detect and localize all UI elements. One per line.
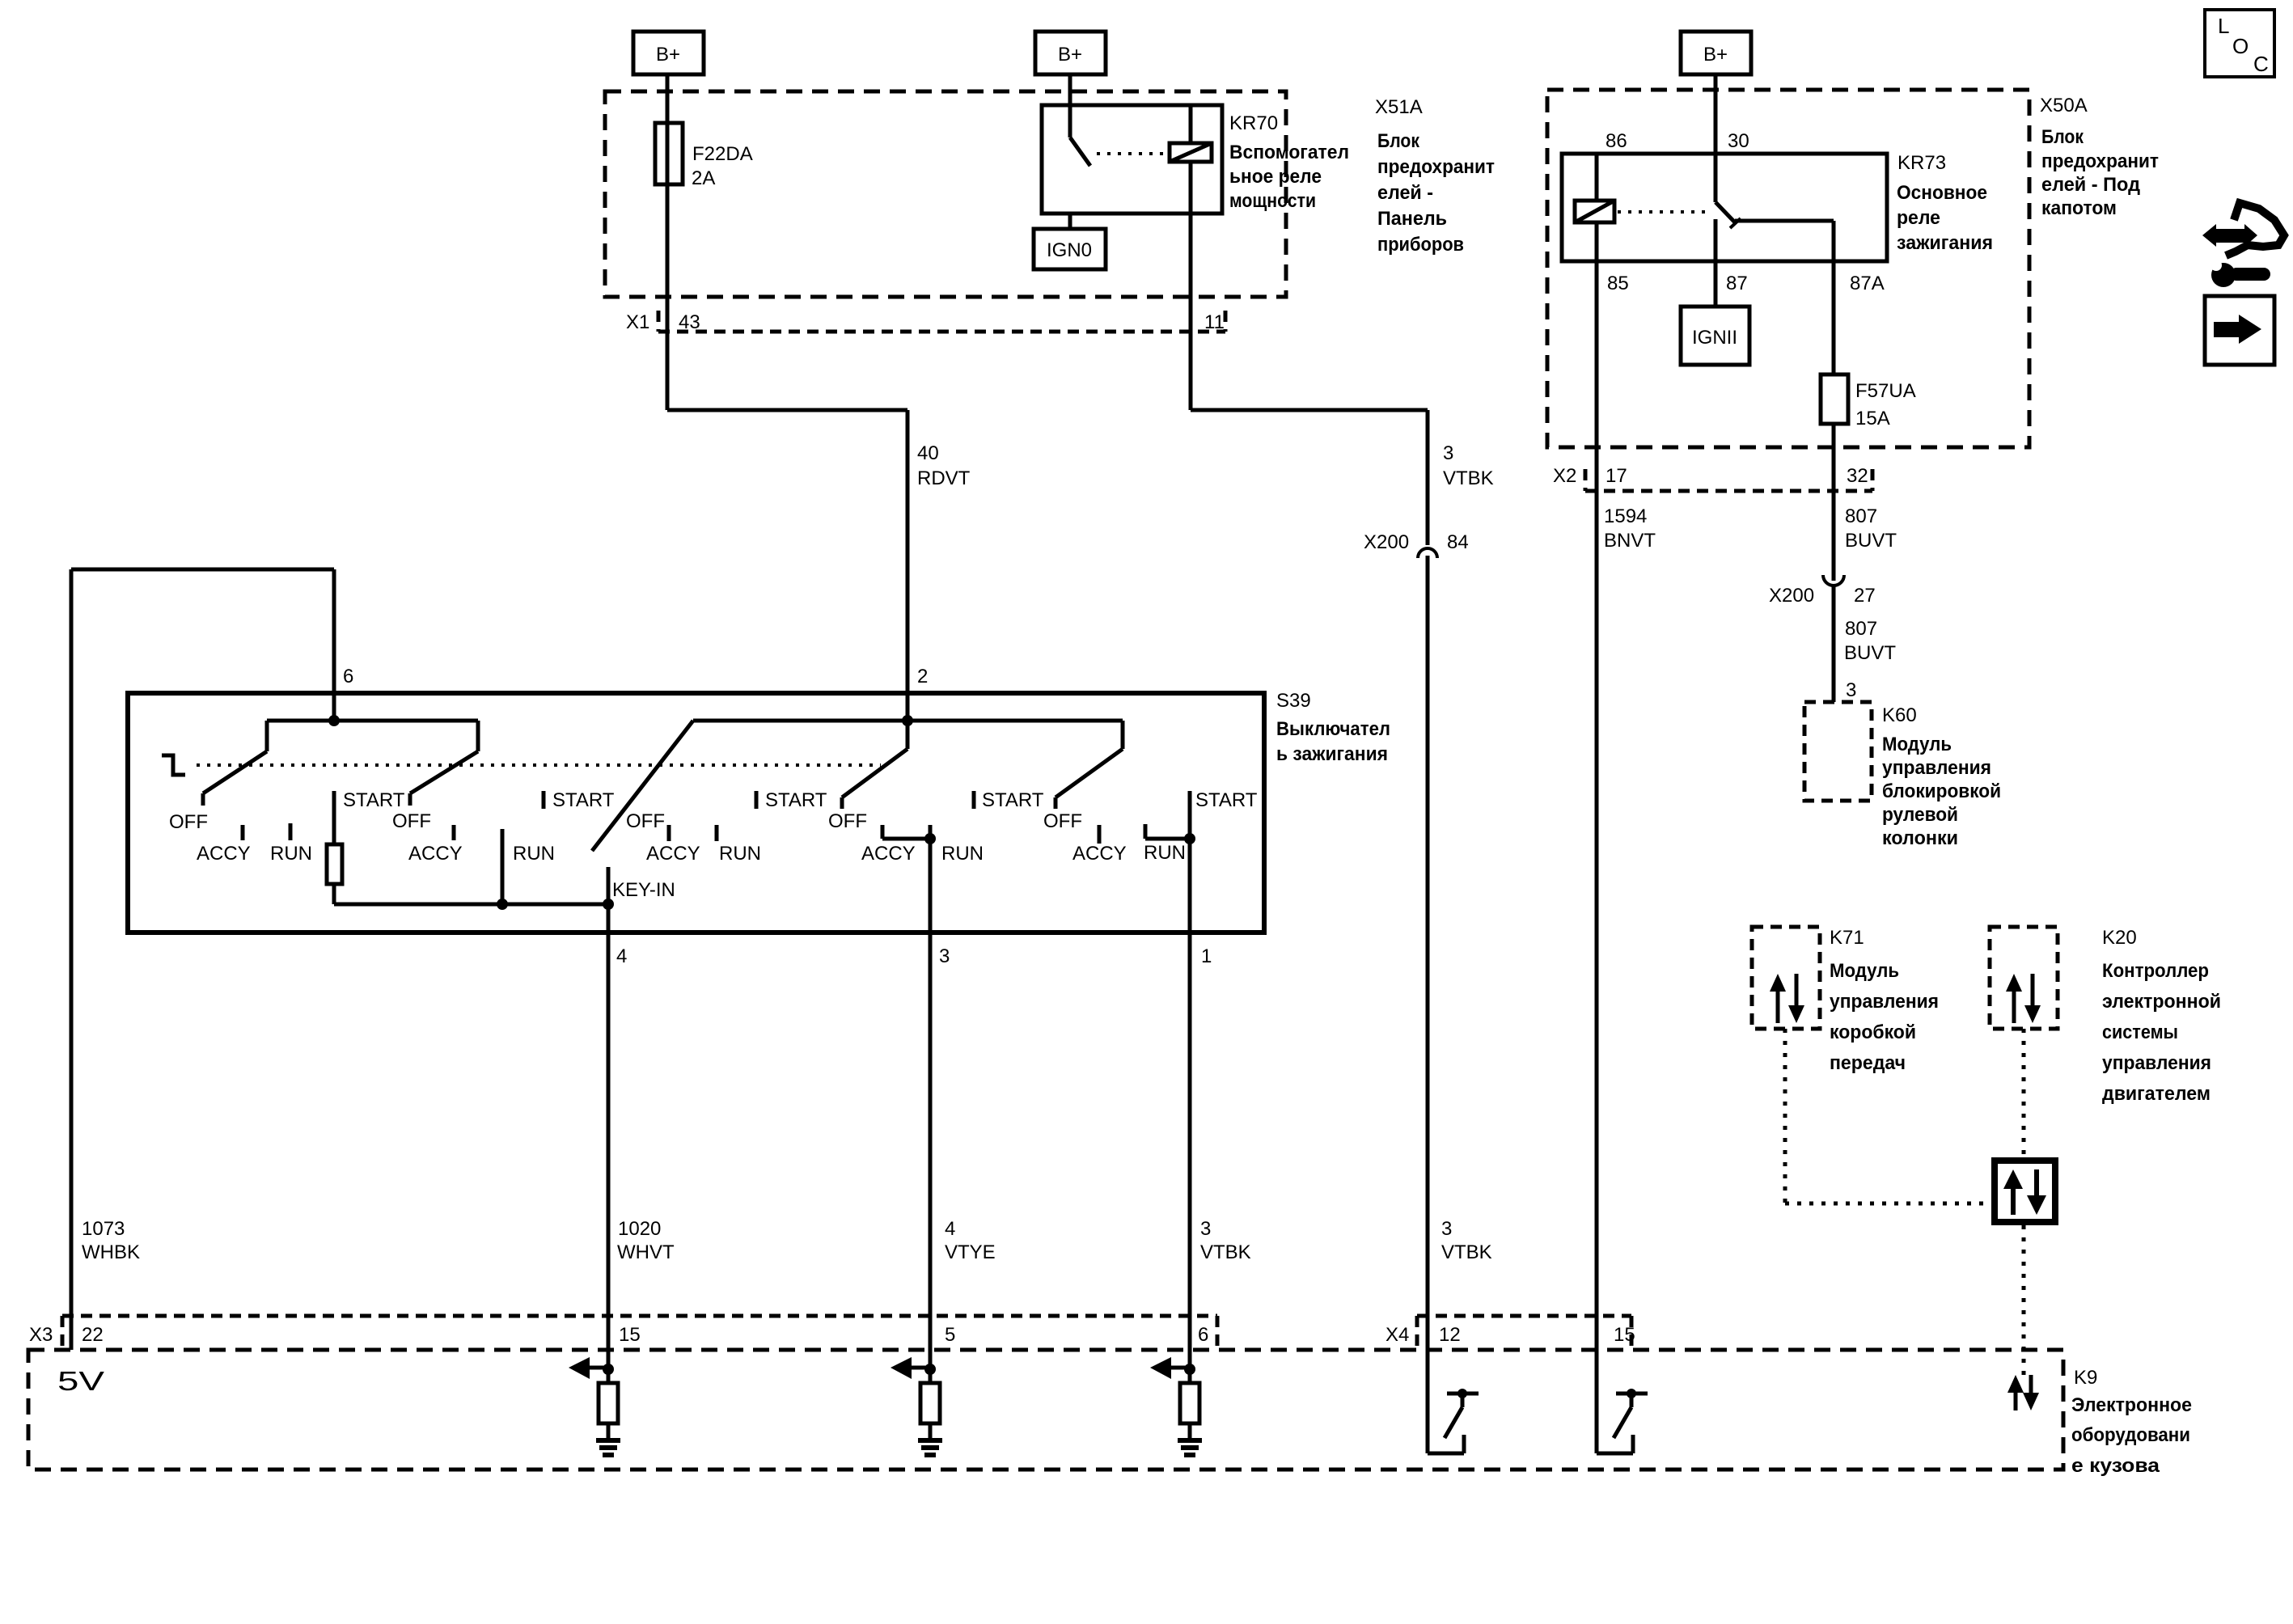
svg-text:Модуль: Модуль (1882, 734, 1952, 755)
svg-text:RDVT: RDVT (917, 467, 971, 489)
svg-text:B+: B+ (1703, 44, 1728, 66)
svg-text:зажигания: зажигания (1897, 232, 1993, 254)
svg-text:Модуль: Модуль (1830, 960, 1899, 982)
svg-text:рулевой: рулевой (1882, 804, 1958, 826)
svg-text:F22DA: F22DA (692, 143, 753, 165)
svg-text:управления: управления (1830, 991, 1939, 1013)
svg-text:ACCY: ACCY (1072, 843, 1127, 865)
svg-text:3: 3 (1443, 442, 1453, 464)
svg-text:VTBK: VTBK (1200, 1241, 1251, 1263)
svg-text:предохранит: предохранит (1377, 156, 1495, 178)
svg-text:управления: управления (2102, 1052, 2211, 1074)
svg-text:Вспомогател: Вспомогател (1229, 142, 1349, 163)
svg-text:ACCY: ACCY (861, 843, 916, 865)
svg-text:BUVT: BUVT (1844, 642, 1896, 664)
svg-text:X2: X2 (1553, 465, 1576, 487)
svg-text:ь зажигания: ь зажигания (1276, 743, 1388, 765)
svg-text:Блок: Блок (2041, 126, 2084, 148)
svg-text:OFF: OFF (169, 811, 208, 833)
svg-text:5V: 5V (57, 1366, 104, 1396)
svg-text:электронной: электронной (2102, 991, 2221, 1013)
svg-text:87: 87 (1726, 273, 1748, 294)
svg-text:84: 84 (1447, 531, 1469, 553)
svg-text:коробкой: коробкой (1830, 1021, 1916, 1043)
svg-text:мощности: мощности (1229, 190, 1316, 212)
svg-text:KR70: KR70 (1229, 112, 1278, 134)
svg-text:15: 15 (1614, 1324, 1635, 1346)
svg-text:VTBK: VTBK (1443, 467, 1494, 489)
svg-text:реле: реле (1897, 207, 1940, 229)
svg-text:системы: системы (2102, 1021, 2178, 1043)
svg-text:27: 27 (1854, 585, 1876, 607)
svg-text:RUN: RUN (270, 843, 312, 865)
svg-text:Блок: Блок (1377, 130, 1420, 152)
svg-text:е кузова: е кузова (2071, 1455, 2160, 1477)
svg-text:32: 32 (1847, 465, 1868, 487)
svg-text:3: 3 (1846, 679, 1856, 701)
svg-text:86: 86 (1606, 130, 1627, 152)
svg-text:87A: 87A (1850, 273, 1885, 294)
svg-text:X1: X1 (626, 311, 649, 333)
svg-text:Выключател: Выключател (1276, 718, 1390, 740)
svg-text:X200: X200 (1769, 585, 1814, 607)
svg-text:S39: S39 (1276, 690, 1311, 712)
svg-text:приборов: приборов (1377, 234, 1464, 256)
svg-text:4: 4 (616, 945, 627, 967)
svg-text:OFF: OFF (392, 810, 431, 832)
svg-text:Контроллер: Контроллер (2102, 960, 2209, 982)
svg-text:ACCY: ACCY (408, 843, 463, 865)
svg-text:ACCY: ACCY (197, 843, 251, 865)
svg-text:807: 807 (1845, 505, 1877, 527)
svg-text:X3: X3 (29, 1324, 53, 1346)
svg-text:11: 11 (1204, 311, 1225, 333)
svg-text:807: 807 (1845, 618, 1877, 640)
svg-text:предохранит: предохранит (2041, 150, 2159, 172)
svg-text:85: 85 (1607, 273, 1629, 294)
svg-text:капотом: капотом (2041, 197, 2117, 219)
svg-text:5: 5 (945, 1324, 955, 1346)
svg-text:BUVT: BUVT (1845, 530, 1897, 552)
svg-text:WHVT: WHVT (617, 1241, 675, 1263)
svg-text:START: START (552, 789, 615, 811)
svg-text:K60: K60 (1882, 704, 1917, 726)
svg-text:KEY-IN: KEY-IN (612, 879, 675, 901)
svg-text:15: 15 (619, 1324, 641, 1346)
svg-text:ACCY: ACCY (646, 843, 700, 865)
svg-text:ьное реле: ьное реле (1229, 166, 1322, 188)
svg-text:X4: X4 (1386, 1324, 1409, 1346)
svg-text:F57UA: F57UA (1855, 380, 1916, 402)
svg-text:L: L (2218, 14, 2229, 38)
svg-text:RUN: RUN (1144, 842, 1186, 864)
svg-text:K71: K71 (1830, 927, 1864, 949)
svg-text:елей -: елей - (1377, 182, 1433, 204)
svg-text:двигателем: двигателем (2102, 1083, 2211, 1105)
svg-text:BNVT: BNVT (1604, 530, 1656, 552)
svg-text:B+: B+ (656, 44, 680, 66)
svg-text:VTYE: VTYE (945, 1241, 996, 1263)
svg-text:C: C (2253, 52, 2269, 76)
svg-text:K20: K20 (2102, 927, 2137, 949)
svg-text:1073: 1073 (82, 1218, 125, 1240)
svg-text:START: START (343, 789, 405, 811)
svg-text:2A: 2A (692, 167, 715, 189)
svg-text:3: 3 (1200, 1218, 1211, 1240)
svg-text:RUN: RUN (513, 843, 555, 865)
svg-text:6: 6 (1198, 1324, 1208, 1346)
svg-text:START: START (1195, 789, 1258, 811)
svg-text:15A: 15A (1855, 408, 1890, 429)
svg-text:6: 6 (343, 666, 353, 687)
svg-text:X51A: X51A (1375, 96, 1423, 118)
svg-text:START: START (982, 789, 1044, 811)
svg-text:3: 3 (939, 945, 950, 967)
svg-text:OFF: OFF (828, 810, 867, 832)
svg-text:Панель: Панель (1377, 208, 1447, 230)
svg-text:RUN: RUN (941, 843, 984, 865)
svg-text:OFF: OFF (626, 810, 665, 832)
svg-text:Основное: Основное (1897, 182, 1987, 204)
svg-text:IGN0: IGN0 (1047, 239, 1092, 261)
svg-text:30: 30 (1728, 130, 1749, 152)
svg-text:2: 2 (917, 666, 928, 687)
svg-text:управления: управления (1882, 757, 1991, 779)
svg-text:колонки: колонки (1882, 827, 1958, 849)
svg-text:блокировкой: блокировкой (1882, 780, 2001, 802)
svg-text:START: START (765, 789, 827, 811)
svg-text:B+: B+ (1058, 44, 1082, 66)
svg-text:передач: передач (1830, 1052, 1906, 1074)
svg-text:OFF: OFF (1043, 810, 1082, 832)
svg-text:X50A: X50A (2040, 95, 2088, 116)
svg-text:4: 4 (945, 1218, 955, 1240)
svg-text:43: 43 (679, 311, 700, 333)
svg-text:3: 3 (1441, 1218, 1452, 1240)
svg-text:17: 17 (1606, 465, 1627, 487)
svg-text:40: 40 (917, 442, 939, 464)
svg-text:O: O (2232, 34, 2249, 58)
svg-text:1020: 1020 (618, 1218, 661, 1240)
svg-text:K9: K9 (2074, 1367, 2097, 1389)
svg-text:22: 22 (82, 1324, 104, 1346)
svg-text:Электронное: Электронное (2071, 1394, 2192, 1416)
svg-text:12: 12 (1439, 1324, 1461, 1346)
svg-text:RUN: RUN (719, 843, 761, 865)
svg-text:елей - Под: елей - Под (2041, 174, 2140, 196)
svg-text:оборудовани: оборудовани (2071, 1424, 2190, 1446)
svg-text:VTBK: VTBK (1441, 1241, 1492, 1263)
svg-text:KR73: KR73 (1897, 152, 1946, 174)
svg-text:IGNII: IGNII (1692, 327, 1737, 349)
svg-text:1: 1 (1201, 945, 1212, 967)
svg-text:1594: 1594 (1604, 505, 1647, 527)
svg-text:WHBK: WHBK (82, 1241, 140, 1263)
svg-text:X200: X200 (1364, 531, 1409, 553)
